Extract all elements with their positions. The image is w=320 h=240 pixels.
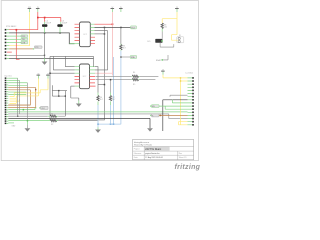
wire grey U2 pin7 elbow	[71, 85, 75, 87]
capacitor C2 body	[42, 24, 47, 27]
wire grey x93.5 down to U2 right pin1	[93, 56, 95, 66]
wire yellow branch to R8	[162, 19, 177, 23]
J2 wire rowA green	[8, 77, 17, 79]
svg-text:R4: R4	[133, 72, 135, 74]
wire grey U1 pin3 drop to U2	[95, 31, 108, 70]
J2 wire row6 yellow to P7	[10, 79, 49, 97]
G_MIDBOTTOM	[39, 85, 97, 126]
junction red at cap1	[44, 17, 46, 19]
G_CONN3	[150, 75, 194, 131]
svg-text:fritzing: fritzing	[175, 164, 201, 171]
op-amp U2 body	[80, 64, 90, 89]
connector J3 pins	[192, 77, 194, 126]
net label box TXD	[21, 38, 28, 41]
power symbol P6	[161, 69, 165, 74]
G_IC2_WIRES	[49, 56, 112, 120]
junction cluster 2	[58, 95, 59, 96]
G_CAPS	[42, 21, 68, 33]
J2 wire row2 brown	[8, 88, 35, 108]
junction grey at 104/84.5	[104, 84, 106, 86]
power symbol P5	[175, 7, 179, 12]
G_IC1	[75, 22, 96, 47]
svg-text:Shared By: DIYtools: Shared By: DIYtools	[134, 143, 152, 146]
junction grey row15	[17, 116, 18, 117]
junction brown row2	[35, 89, 36, 90]
junction brown row13	[160, 115, 162, 117]
project value cell	[145, 147, 170, 151]
junction grey cap1	[44, 32, 46, 34]
svg-text:MCP: MCP	[83, 34, 87, 36]
J1 wire green row4	[9, 38, 21, 40]
svg-text:4k7: 4k7	[112, 99, 115, 101]
U1 right red stubs	[90, 37, 95, 44]
power symbol P3	[111, 7, 115, 12]
J3 wire row9 green elbow	[172, 100, 187, 103]
svg-text:4k7: 4k7	[123, 48, 126, 50]
power symbol P4	[119, 7, 123, 12]
U2 right red stubs	[90, 76, 96, 86]
J2 wire row17 green R2 row	[8, 120, 50, 122]
power symbol P7	[37, 73, 41, 78]
U2 left red stubs	[75, 76, 80, 83]
wire grey gnd drop to ground G2	[44, 33, 46, 58]
junction red bus corner	[37, 17, 39, 19]
wire grey x53.5 to U2 pin2	[54, 56, 75, 70]
J3 wire row7 grey	[170, 95, 188, 97]
wire red cap2 drop	[60, 18, 62, 22]
wire grey x104 long vertical	[50, 27, 104, 120]
net label SDA2 with hook wire	[156, 55, 168, 62]
J2 wire row9 yellow	[10, 99, 17, 103]
ground G5	[95, 124, 101, 133]
wire grey x65.5 to U2 pin1	[66, 56, 75, 66]
junction yellow r2	[180, 80, 181, 81]
wire grey y57 to label SDA	[121, 56, 130, 58]
U2 left green pin bottom	[75, 85, 80, 87]
U1 left red pins	[75, 24, 80, 40]
title divider 3	[133, 154, 194, 156]
net label box RXD	[21, 35, 28, 38]
power symbol P2	[36, 7, 40, 12]
J1 wire green row5	[9, 42, 21, 44]
ground G1	[25, 121, 31, 132]
svg-text:4k7: 4k7	[100, 99, 103, 101]
title divider 1	[133, 145, 194, 147]
resistor R2 on row17	[50, 119, 97, 125]
net label box DTR	[21, 41, 28, 44]
wire pink U2 right to rail	[95, 72, 112, 74]
svg-text:100nF: 100nF	[62, 23, 68, 25]
junction grey x121	[120, 27, 122, 29]
junction red left	[16, 29, 18, 31]
wire grey R8 down	[161, 32, 163, 39]
wire grey y84.5 elbow	[98, 84, 104, 86]
G_GROUNDS	[25, 58, 153, 133]
power symbol P8	[46, 73, 50, 78]
resistor R5 horizontal	[96, 78, 156, 85]
wire grey vertical x19.6	[19, 80, 21, 113]
junction grey x104	[104, 27, 106, 29]
wire grey gnd bus y33	[9, 33, 75, 44]
resistor R7 vertical column	[109, 79, 115, 124]
wire grey J1 pin10 long	[9, 58, 94, 60]
J2 wire row3 brown	[8, 90, 30, 105]
junction cluster 3	[65, 95, 66, 96]
net label SDA	[130, 56, 137, 59]
svg-text:SCL: SCL	[147, 41, 151, 43]
junction grey y57	[120, 56, 122, 58]
capacitor C3 pins	[59, 22, 62, 33]
wire grey U2 right pin1 down	[95, 67, 98, 93]
G_WIRES_TOPLEFT	[7, 12, 94, 59]
wire grey U1 pin2 bus to label	[95, 26, 131, 28]
G_IC2	[75, 64, 96, 89]
J3 wire row10 green label	[150, 105, 187, 108]
net label box CTS	[33, 46, 42, 50]
ground G4	[147, 128, 153, 131]
resistor R4 horizontal	[96, 72, 159, 78]
J2 wire row12 green to CLK	[8, 108, 36, 110]
schematic page frame	[1, 1, 198, 161]
svg-text:Vout: Vout	[131, 26, 135, 29]
wire grey branch to U2 pin3	[50, 72, 75, 74]
wire cluster verticals	[52, 85, 65, 116]
J3 wire row11 green	[165, 106, 187, 109]
wire grey U1 pin4 join	[95, 33, 105, 35]
title vertical dividers	[144, 146, 178, 160]
U1 right green stubs	[90, 24, 94, 34]
G_TOPRIGHT	[147, 12, 184, 47]
J2 wire rowC green	[8, 82, 27, 84]
J2 wire row16 dark to G4	[8, 118, 150, 128]
junction blue mid	[110, 123, 112, 125]
wire red stub J1 pin8	[7, 51, 12, 53]
title block box	[133, 139, 194, 159]
svg-text:100nF: 100nF	[45, 23, 51, 25]
J3 wire row8 dark	[163, 100, 188, 131]
G_RIGHTMID	[156, 55, 193, 74]
J2 wire row18 green short	[8, 122, 14, 124]
svg-text:pagina2starter.fzz: pagina2starter.fzz	[145, 152, 159, 155]
resistor R8 vertical	[161, 23, 167, 31]
svg-text:Lcd 16x2: Lcd 16x2	[186, 72, 194, 74]
J2 wire rowB green	[8, 79, 19, 81]
wire blue vertical x113.4	[112, 57, 114, 124]
svg-text:R2: R2	[51, 124, 53, 126]
power symbol P1	[28, 7, 32, 12]
wire cluster horizontal top	[52, 90, 67, 92]
wire red U1 pin1 to rail	[95, 23, 113, 25]
wire grey x50 to U2 pin3	[49, 56, 51, 120]
ground G2	[42, 58, 48, 65]
wire red vcc top bus	[38, 12, 61, 30]
junction green G1	[27, 120, 29, 122]
svg-text:MCP: MCP	[83, 76, 87, 78]
junction grey pin4	[104, 33, 106, 35]
G_CONN1	[5, 25, 42, 60]
vertical grey x27.4 to G1	[26, 83, 28, 121]
wire grey vertical x17.7	[17, 78, 19, 116]
wire yellow J1 pin6 to power P1	[9, 12, 30, 46]
J3 wire row15 yellow	[178, 122, 187, 125]
junction grey x50	[49, 73, 51, 75]
junction red rail	[112, 23, 114, 25]
op-amp U1 body	[80, 22, 91, 47]
G_CONN2	[5, 76, 188, 129]
connector J3 green stubs	[188, 78, 193, 125]
wire red J1 pin1	[7, 29, 38, 31]
svg-text:SDA2: SDA2	[156, 59, 161, 62]
net label box CLK	[39, 106, 48, 110]
svg-text:Sheet 1/1: Sheet 1/1	[179, 156, 187, 159]
svg-text:17 Aug 2023 10:09:01: 17 Aug 2023 10:09:01	[145, 156, 163, 159]
J3 wire row1 yellow from P6	[163, 75, 188, 78]
connector J2 pins	[5, 77, 7, 124]
J2 wire row11 brown	[8, 106, 35, 108]
svg-text:Project: Project	[134, 148, 140, 151]
resistor R3 vertical	[120, 27, 126, 50]
J3 wire yellow vertical x180.5	[180, 78, 182, 125]
junction blue left	[97, 123, 99, 125]
wire red stub cap1	[44, 18, 46, 22]
rail pink vertical P3	[111, 12, 113, 76]
svg-text:R5: R5	[133, 84, 135, 86]
connector J1 pins	[5, 29, 7, 59]
connector J2 stubs	[6, 78, 8, 123]
U2 right green stubs	[90, 67, 96, 74]
capacitor C3 body	[57, 24, 62, 27]
J2 wire row1 green	[8, 84, 27, 86]
J3 wire row13 brown label	[150, 114, 159, 117]
G_POWER	[28, 7, 179, 79]
svg-text:Rev: Rev	[179, 153, 182, 155]
wire green IC1 pin7	[69, 43, 79, 45]
connector J1 green stubs	[6, 30, 9, 59]
U2 left green pins top	[75, 67, 80, 74]
wire grey J1 pin9 to gnd column	[9, 54, 45, 56]
wire red vertical left	[16, 30, 19, 60]
resistor R6 vertical column	[97, 93, 103, 125]
junction grey pin9 gnd	[44, 55, 45, 56]
svg-text:Date: Date	[134, 156, 138, 159]
junction yellow r1	[180, 77, 181, 78]
wire yellow P5 down	[176, 12, 178, 35]
G_TITLEBLOCK	[133, 139, 194, 159]
J2 wire row7 yellow	[10, 79, 39, 99]
net label Vout	[131, 26, 137, 29]
J3 wire row13 brown	[159, 114, 188, 116]
junction cluster 1	[58, 90, 59, 91]
J2 wire row8 yellow	[10, 99, 20, 101]
svg-text:Filename: Filename	[134, 153, 141, 155]
J2 wire row5 green	[8, 93, 26, 95]
J1 wire green row3	[9, 35, 21, 37]
svg-text:S1: S1	[179, 35, 181, 37]
wire blue R3 down	[120, 51, 122, 124]
junction grey cap2	[59, 32, 61, 34]
J3 wire row2 yellow	[181, 80, 188, 82]
J2 wire row15 grey R1 row	[8, 115, 48, 117]
transistor Q1 body	[147, 39, 163, 43]
wire cluster horizontal bottom	[52, 95, 65, 97]
capacitor C2 pins	[44, 22, 46, 33]
J1 wire brown row7	[9, 48, 33, 50]
svg-text:FTDI BASIC: FTDI BASIC	[6, 25, 17, 28]
wire grey Q1 down elbow	[160, 43, 174, 47]
junction green row12	[23, 109, 25, 111]
wire yellow into J4	[172, 35, 179, 41]
svg-text:Imp One: Imp One	[5, 76, 12, 78]
G_IC1_WIRES	[50, 12, 137, 125]
J2 wire row13 green bus long	[8, 111, 187, 113]
G_RESISTORS_MID	[96, 72, 159, 124]
J2 wire row14 grey long	[8, 114, 187, 119]
resistor R1 on row15	[48, 113, 66, 117]
wire grey mid bus y56.4	[50, 55, 94, 57]
title divider 2	[133, 150, 194, 152]
J2 wire row10 brown	[8, 104, 30, 106]
connector J4 body	[177, 35, 184, 43]
ground G6	[71, 86, 82, 107]
svg-text:24V TIG lifearc: 24V TIG lifearc	[145, 148, 162, 151]
wire blue horizontal bottom	[98, 123, 121, 125]
J2 wire row4 green	[8, 91, 26, 93]
junction blue	[113, 123, 115, 125]
svg-text:R1: R1	[51, 113, 53, 115]
svg-text:10k: 10k	[164, 27, 167, 29]
